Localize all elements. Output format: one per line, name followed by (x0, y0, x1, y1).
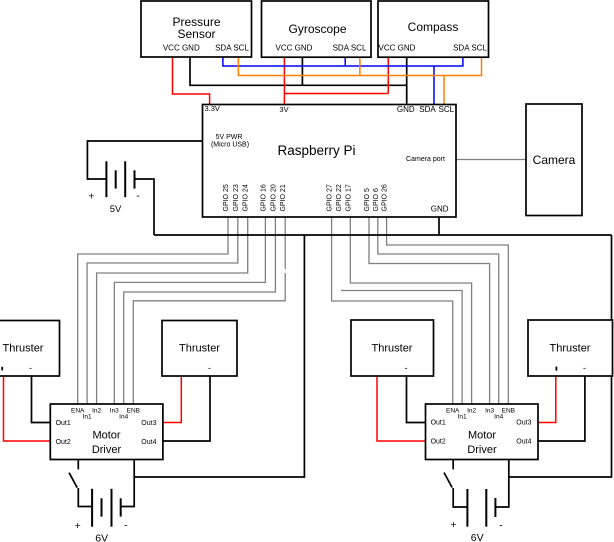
svg-text:In4: In4 (494, 414, 503, 421)
svg-text:-: - (499, 520, 503, 532)
svg-text:Out4: Out4 (516, 439, 531, 446)
svg-text:5V: 5V (110, 204, 122, 215)
svg-text:GPIO 16: GPIO 16 (260, 184, 267, 211)
svg-text:Out3: Out3 (516, 420, 531, 427)
svg-text:GPIO 27: GPIO 27 (327, 184, 334, 211)
svg-text:SDA: SDA (419, 105, 436, 114)
svg-text:ENB: ENB (502, 408, 515, 415)
svg-text:GPIO 21: GPIO 21 (280, 184, 287, 211)
svg-text:Driver: Driver (92, 444, 122, 456)
svg-text:GND: GND (431, 205, 449, 214)
svg-text:-: - (124, 520, 128, 532)
svg-text:VCC GND: VCC GND (163, 44, 200, 53)
svg-text:-: - (208, 363, 211, 373)
svg-text:Out3: Out3 (141, 420, 156, 427)
svg-text:VCC GND: VCC GND (379, 44, 416, 53)
svg-text:VCC GND: VCC GND (276, 44, 313, 53)
svg-text:SDA SCL: SDA SCL (215, 44, 249, 53)
svg-text:Raspberry Pi: Raspberry Pi (277, 143, 355, 158)
svg-text:Out2: Out2 (56, 439, 71, 446)
svg-text:+: + (75, 520, 81, 532)
svg-text:In1: In1 (458, 414, 467, 421)
svg-text:SDA SCL: SDA SCL (453, 44, 487, 53)
svg-text:In2: In2 (92, 408, 101, 415)
svg-text:GPIO 23: GPIO 23 (233, 184, 240, 211)
svg-text:5V PWR: 5V PWR (216, 134, 243, 141)
svg-text:GPIO 26: GPIO 26 (382, 184, 389, 211)
svg-text:Out1: Out1 (56, 420, 71, 427)
svg-text:(Micro USB): (Micro USB) (211, 142, 249, 149)
svg-text:+: + (88, 191, 94, 203)
svg-text:GPIO 24: GPIO 24 (243, 184, 250, 211)
svg-text:GPIO 20: GPIO 20 (270, 184, 277, 211)
svg-text:3V: 3V (279, 105, 288, 114)
svg-text:Thruster: Thruster (372, 343, 413, 355)
svg-text:Compass: Compass (408, 20, 459, 34)
svg-text:GPIO 17: GPIO 17 (345, 184, 352, 211)
svg-text:3.3V: 3.3V (205, 104, 220, 113)
svg-text:-: - (405, 363, 408, 373)
svg-text:Out2: Out2 (431, 439, 446, 446)
svg-text:Sensor: Sensor (177, 27, 215, 41)
svg-text:6V: 6V (95, 533, 108, 542)
svg-text:Gyroscope: Gyroscope (288, 22, 346, 36)
svg-text:GPIO 22: GPIO 22 (336, 184, 343, 211)
svg-text:Thruster: Thruster (550, 343, 591, 355)
svg-text:6V: 6V (471, 532, 484, 542)
svg-text:SCL: SCL (439, 105, 455, 114)
svg-text:GPIO 25: GPIO 25 (223, 184, 230, 211)
svg-text:Out1: Out1 (431, 420, 446, 427)
svg-text:+: + (450, 519, 456, 531)
svg-text:Motor: Motor (468, 430, 496, 442)
svg-text:ENB: ENB (127, 408, 140, 415)
svg-text:GND: GND (397, 105, 415, 114)
svg-text:GPIO 5: GPIO 5 (364, 188, 371, 211)
svg-text:Thruster: Thruster (179, 343, 220, 355)
svg-text:Camera port: Camera port (406, 156, 445, 163)
svg-text:Motor: Motor (92, 430, 120, 442)
svg-text:In2: In2 (467, 408, 476, 415)
svg-text:In3: In3 (485, 408, 494, 415)
svg-text:In1: In1 (83, 414, 92, 421)
svg-text:Out4: Out4 (141, 439, 156, 446)
svg-text:-: - (583, 363, 586, 373)
svg-text:Driver: Driver (467, 444, 497, 456)
svg-text:In3: In3 (110, 408, 119, 415)
svg-text:In4: In4 (119, 414, 128, 421)
svg-text:GPIO 6: GPIO 6 (373, 188, 380, 211)
svg-text:-: - (29, 363, 32, 373)
svg-text:Camera: Camera (533, 153, 576, 167)
svg-text:-: - (136, 190, 140, 202)
svg-text:Thruster: Thruster (3, 343, 44, 355)
svg-text:SDA SCL: SDA SCL (333, 44, 367, 53)
